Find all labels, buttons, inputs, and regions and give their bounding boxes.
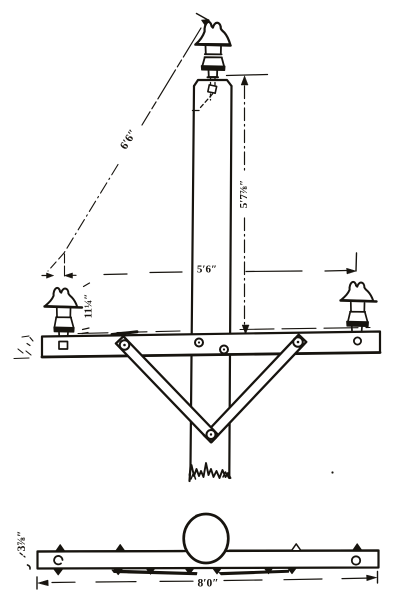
hole at right arm end bbox=[354, 337, 361, 344]
dimension 5'7 7/8" vertical line bbox=[227, 75, 268, 335]
dimension 5'6" horizontal dashed line bbox=[104, 253, 357, 275]
bottom bar bbox=[38, 551, 379, 569]
top insulator bbox=[196, 22, 231, 77]
hole right in bottom bar bbox=[352, 556, 360, 564]
pole section circle bbox=[184, 514, 229, 563]
braces seen from below (right strip) bbox=[219, 570, 289, 575]
stray speck bbox=[331, 471, 333, 473]
cross-arm doubled top edge bbox=[78, 331, 180, 334]
hole left in bottom bar bbox=[54, 556, 62, 564]
dimension 1 1/4" ticks and label bbox=[82, 283, 95, 334]
strap end mark above left pivot bbox=[112, 332, 137, 335]
pole bbox=[191, 80, 232, 473]
left pivot bolt bbox=[120, 340, 130, 350]
svg-text:11¼″: 11¼″ bbox=[83, 294, 95, 319]
dimension 3 7/8" label bbox=[16, 531, 28, 552]
right brace bbox=[204, 335, 306, 443]
svg-text:5′6″: 5′6″ bbox=[197, 264, 217, 276]
bar top edge re-draw outside circle bbox=[38, 551, 379, 552]
small pins below bar bbox=[54, 569, 63, 575]
dimension marks left of arm bbox=[14, 336, 33, 359]
pins on top edge (triangles) bbox=[56, 545, 65, 552]
svg-text:3⅞″: 3⅞″ bbox=[16, 531, 28, 552]
vertex bolt bbox=[207, 430, 216, 439]
right pivot bolt bbox=[293, 337, 303, 347]
left insulator bbox=[45, 288, 83, 339]
right brace lower end edge over left brace bbox=[204, 435, 216, 442]
cross-arm front view bbox=[42, 332, 380, 358]
dimension arrows at left insulator centre bbox=[42, 273, 76, 278]
pin hole dashed detail in pole top bbox=[193, 78, 217, 111]
left brace bbox=[116, 336, 218, 442]
dimension 6'6" diagonal line bbox=[48, 14, 209, 277]
dimension 3 7/8" leader ticks bbox=[20, 553, 30, 569]
dimension 6'6" label bbox=[114, 122, 143, 157]
pole break jagged line bbox=[190, 463, 231, 478]
arm bolt right bbox=[220, 346, 228, 354]
braces seen from below (left strip) bbox=[112, 570, 197, 575]
arm bolt left bbox=[195, 339, 203, 347]
svg-text:5′7⅞″: 5′7⅞″ bbox=[238, 180, 250, 208]
svg-text:8′0″: 8′0″ bbox=[197, 578, 218, 590]
right insulator bbox=[341, 282, 377, 334]
nut below left insulator bbox=[59, 342, 68, 350]
dimension 8'0" line bbox=[37, 572, 378, 590]
dimension 5'7 7/8" label bbox=[236, 173, 251, 215]
